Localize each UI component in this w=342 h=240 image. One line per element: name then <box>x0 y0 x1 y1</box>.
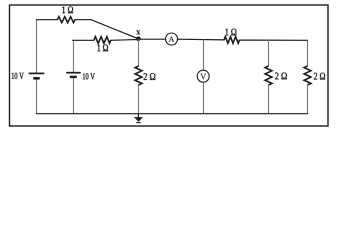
ammeter A1 circle <box>166 33 178 45</box>
wire R6 to bus <box>307 85 309 114</box>
ground triangle <box>134 117 143 122</box>
resistor R3 1 ohm zigzag <box>224 37 240 44</box>
resistor R5 2 ohm zigzag <box>265 66 272 85</box>
node x dot <box>136 37 141 42</box>
wire mid horizontal right <box>111 39 138 42</box>
wire bottom bus <box>37 113 308 115</box>
wire R6 top corner down <box>307 40 309 66</box>
wire battery V2 top to corner <box>73 40 75 72</box>
wire node x down <box>138 39 140 66</box>
wire diagonal to node x <box>91 20 138 39</box>
wire ammeter to R3 <box>178 38 225 41</box>
resistor R2 1 ohm zigzag <box>94 37 111 44</box>
resistor R4 2 ohm zigzag <box>135 66 142 85</box>
label R3 "1 ohm" <box>226 29 229 36</box>
battery V1 long plate <box>29 72 45 74</box>
label R4 "2 ohm" <box>144 73 147 80</box>
label V1 "10 V" <box>12 73 14 79</box>
label R1 "1 ohm" <box>62 6 65 13</box>
ground stub <box>137 114 139 118</box>
ground lower tick <box>136 122 140 124</box>
resistor R6 2 ohm zigzag <box>304 66 311 85</box>
ammeter A1 letter A <box>169 37 175 42</box>
label R6 "2 ohm" <box>314 73 317 80</box>
label R2 "1 ohm" <box>97 44 100 51</box>
wire R4 to bus <box>138 85 140 114</box>
battery V2 long plate <box>66 72 81 74</box>
label node "x" <box>136 30 140 34</box>
wire top horizontal right <box>75 19 91 21</box>
wire mid horizontal left <box>73 39 94 41</box>
battery V1 short plate <box>33 77 39 80</box>
voltmeter V1 letter V <box>200 74 206 80</box>
wire R5 to bus <box>268 85 270 114</box>
wire battery V2 bottom <box>73 78 75 114</box>
border frame <box>10 5 329 126</box>
label R5 "2 ohm" <box>275 73 278 80</box>
resistor R1 1 ohm zigzag <box>57 17 75 23</box>
wire battery V1 bottom <box>36 79 38 113</box>
voltmeter V1 circle <box>197 70 209 82</box>
wire voltmeter top <box>203 39 205 70</box>
wire voltmeter bottom <box>203 82 205 114</box>
label V2 "10 V" <box>83 73 85 79</box>
wire battery V1 top to corner <box>36 20 38 73</box>
wire top horizontal left <box>37 19 58 21</box>
wire R5 top <box>268 40 270 66</box>
wire R3 to top right corner <box>240 39 308 41</box>
battery V2 short plate <box>70 76 77 78</box>
wire node x to ammeter <box>138 38 165 40</box>
